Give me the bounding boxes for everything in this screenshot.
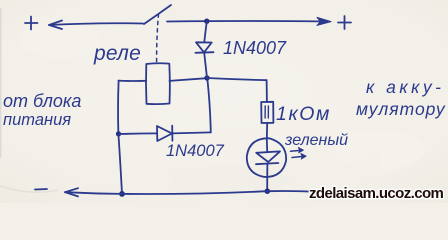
svg-text:реле: реле [93,42,141,65]
switch S1 (relay contact blade) [144,5,171,24]
node junction mid right [204,75,209,80]
relay coil K1 [146,63,170,104]
node junction top [204,19,209,24]
wire resistor to LED [266,123,268,139]
svg-text:питания: питания [3,111,71,129]
svg-text:к акку-: к акку- [366,77,444,97]
LED VD1 lead through [266,139,268,152]
wire left vertical upper [117,81,120,134]
svg-text:1N4007: 1N4007 [223,38,287,58]
wire coil right to node [170,78,207,81]
wire top-right with arrow pointing right [167,17,331,25]
diode D2 1N4007 (flyback across coil) [157,126,172,141]
diode D1 1N4007 (series to battery branch) [196,42,214,53]
svg-text:от блока: от блока [3,91,81,111]
LED light arrows [291,147,307,159]
wire LED lead lower [266,164,268,191]
wire from top node down to D1 [204,21,207,42]
wire D1 to mid node [204,53,207,78]
label к аккумулятору [356,77,446,119]
wire diode branch left [119,132,158,135]
label от блока питания [3,91,81,129]
node plus right terminal [338,16,351,29]
svg-text:зеленый: зеленый [284,132,348,149]
LED VD1 circle [247,138,286,177]
node minus left terminal [35,188,47,191]
wire coil left to left vertical [119,80,146,82]
wire dashed mechanical link relay-to-contact [157,14,159,62]
svg-text:1кОм: 1кОм [276,103,331,125]
wire left vertical lower [118,134,122,194]
wire diode branch right [172,132,211,133]
svg-text:zdelaisam.ucoz.com: zdelaisam.ucoz.com [309,185,444,202]
node junction bottom left [119,191,125,197]
paper texture blotches (decorative) [0,8,425,194]
resistor R1 body [261,102,273,123]
wire node to resistor corner [207,78,267,80]
wire bottom with arrow pointing left [65,188,318,196]
svg-text:мулятору: мулятору [356,99,446,119]
wire resistor drop [266,80,268,102]
node junction bottom right [265,188,271,194]
svg-text:1N4007: 1N4007 [166,142,225,160]
wire top-left with arrow pointing left [49,21,143,30]
wire right vertical of coil loop [207,78,211,132]
LED VD1 triangle [256,151,280,162]
node plus left terminal [25,17,38,30]
LED VD1 cathode bar [256,163,278,164]
node junction left [116,131,121,136]
resistor R1 inner marks [265,106,268,118]
